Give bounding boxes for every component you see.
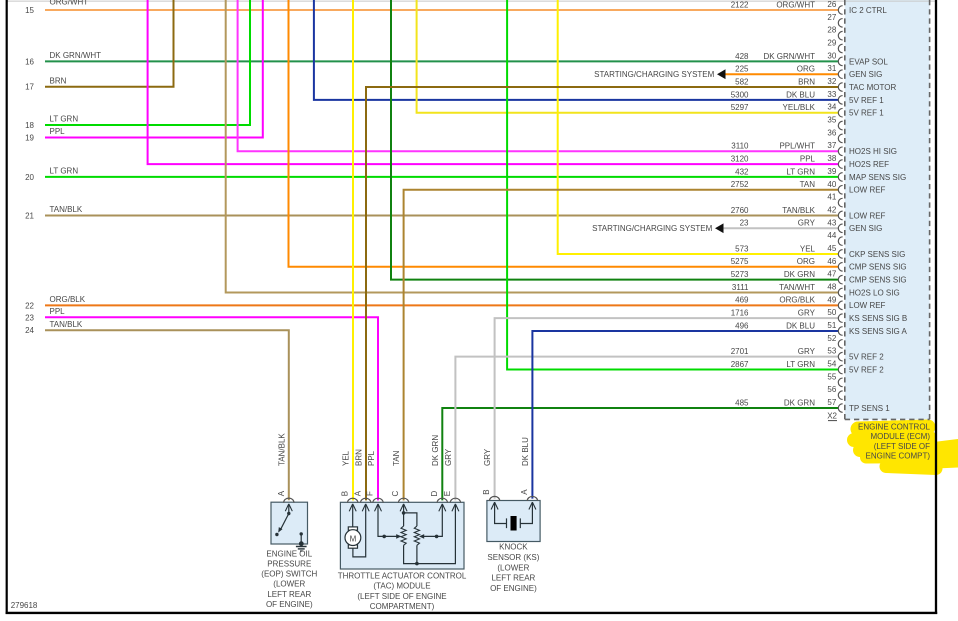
svg-text:LOW REF: LOW REF (849, 211, 886, 220)
svg-text:GEN SIG: GEN SIG (849, 70, 882, 79)
ECM pin number 56 (827, 385, 836, 394)
svg-text:(LOWER: (LOWER (273, 580, 305, 589)
KS pin A socket arc (527, 496, 537, 501)
ECM pin 57 socket arc (838, 404, 842, 413)
wire 1716 GRY: ECM pin 50 down to knock sensor pin B (495, 318, 839, 498)
wire color label ORG (pin 31) (797, 65, 815, 74)
circuit number 2701 (pin 53) (731, 347, 749, 356)
svg-text:A: A (277, 490, 286, 496)
ECM pin 34 socket arc (838, 108, 842, 117)
wire color label BRN (left pin 17) (50, 76, 67, 85)
motor M1 in TAC module (345, 504, 361, 548)
ECM pin 48 socket arc (838, 288, 842, 297)
ECM pin number 30 (827, 51, 836, 60)
ECM pin 28 socket arc (838, 31, 842, 40)
knock sensor caption (487, 543, 539, 593)
svg-text:35: 35 (827, 116, 836, 125)
ECM pin 30 socket arc (838, 57, 842, 66)
TAC pin E socket arc (450, 498, 460, 503)
svg-text:TAN: TAN (392, 450, 401, 466)
svg-text:27: 27 (827, 13, 836, 22)
ECM pin 39 socket arc (838, 173, 842, 182)
wire color label DK BLU (pin 33) (786, 90, 815, 99)
svg-text:3120: 3120 (731, 154, 749, 163)
svg-text:22: 22 (25, 301, 34, 310)
wire color label ORG/WHT (pin 26) (776, 0, 815, 9)
svg-text:(TAC) MODULE: (TAC) MODULE (373, 582, 430, 591)
wire label BRN at TAC pin A (355, 449, 364, 466)
wire label GRY at TAC pin E (444, 448, 453, 466)
svg-text:ORG/WHT: ORG/WHT (50, 0, 89, 7)
svg-text:COMPARTMENT): COMPARTMENT) (370, 602, 435, 611)
wire TAC pin D to wiper of resistor R2 (419, 504, 442, 539)
circuit number 485 (pin 57) (735, 398, 749, 407)
svg-text:TP SENS 1: TP SENS 1 (849, 404, 890, 413)
circuit number 496 (pin 51) (735, 321, 749, 330)
ECM pin number 28 (827, 26, 836, 35)
label STARTING/CHARGING SYSTEM (pin 43) (592, 224, 712, 233)
EOP switch caption (261, 549, 317, 609)
TAC pin B terminal arrow (349, 504, 356, 511)
svg-text:31: 31 (827, 64, 836, 73)
svg-text:46: 46 (827, 257, 836, 266)
ECM pin number 44 (827, 231, 836, 240)
EOP pin A socket arc (284, 498, 294, 503)
ECM signal name KS SENS SIG A (pin 51) (849, 327, 907, 336)
svg-text:39: 39 (827, 167, 836, 176)
svg-text:C: C (391, 490, 400, 496)
svg-text:56: 56 (827, 385, 836, 394)
ECM pin 36 socket arc (838, 134, 842, 143)
wire color label LT GRN (left pin 20) (50, 167, 79, 176)
ECM signal name CMP SENS SIG (pin 47) (849, 276, 907, 285)
piezo crystal block (511, 516, 517, 531)
TAC pin C socket arc (398, 498, 408, 503)
svg-text:1716: 1716 (731, 309, 749, 318)
TAC pin letter B (340, 491, 349, 496)
ECM pin number 39 (827, 167, 836, 176)
ECM signal name 5V REF 2 (pin 54) (849, 365, 884, 374)
svg-text:LT GRN: LT GRN (50, 167, 79, 176)
left connector pin number 23 (25, 313, 34, 322)
ECM pin 27 socket arc (838, 19, 842, 28)
wire color label GRY (pin 53) (798, 347, 816, 356)
svg-text:E: E (443, 491, 452, 496)
svg-text:(LOWER: (LOWER (497, 563, 529, 572)
svg-text:PPL/WHT: PPL/WHT (779, 142, 815, 151)
wire LT GRN: left pin 18 up to top (45, 0, 250, 125)
circuit number 5273 (pin 47) (731, 270, 749, 279)
wire color label TAN/BLK (pin 42) (782, 206, 815, 215)
EOP switch blade (278, 514, 289, 533)
wire 225 ORG: from starting/charging system to ECM pin 31 (726, 73, 839, 75)
wire color label PPL (left pin 23) (50, 307, 66, 316)
knock sensor box (487, 501, 540, 542)
ECM signal name 5V REF 2 (pin 53) (849, 353, 884, 362)
ECM pin number 53 (827, 347, 836, 356)
TAC module caption (338, 571, 467, 611)
ECM signal name KS SENS SIG B (pin 50) (849, 314, 907, 323)
wire color label DK BLU (pin 51) (786, 321, 815, 330)
left connector pin number 20 (25, 173, 34, 182)
ECM pin 32 socket arc (838, 83, 842, 92)
wire color label YEL/BLK (pin 34) (783, 103, 816, 112)
TAC pin F terminal arrow (375, 504, 382, 511)
ECM pin number 48 (827, 282, 836, 291)
TAC pin letter E (443, 491, 452, 496)
svg-text:THROTTLE ACTUATOR CONTROL: THROTTLE ACTUATOR CONTROL (338, 571, 467, 580)
circuit number 1716 (pin 50) (731, 309, 749, 318)
wire BRN: left pin 17 up to top (45, 0, 174, 87)
svg-text:225: 225 (735, 65, 749, 74)
wire 5297 YEL/BLK: from top to ECM pin 34 (417, 0, 839, 113)
ECM pin 29 socket arc (838, 44, 842, 53)
resistor R2 in TAC module (414, 526, 419, 545)
wire color label TAN/WHT (pin 48) (779, 283, 815, 292)
svg-text:5297: 5297 (731, 103, 749, 112)
svg-text:SENSOR (KS): SENSOR (KS) (487, 553, 539, 562)
circuit number 582 (pin 32) (735, 77, 749, 86)
svg-text:YEL: YEL (800, 244, 816, 253)
wire color label PPL (left pin 19) (50, 127, 66, 136)
connector designator X2 (827, 412, 837, 421)
svg-text:428: 428 (735, 52, 749, 61)
TAC pin letter C (391, 490, 400, 496)
svg-text:(EOP) SWITCH: (EOP) SWITCH (261, 570, 317, 579)
ECM pin number 57 (827, 398, 836, 407)
svg-text:26: 26 (827, 0, 836, 9)
svg-text:49: 49 (827, 295, 836, 304)
wire 485 DK GRN: ECM pin 57 down to TAC pin D (442, 408, 838, 500)
svg-text:F: F (366, 491, 375, 496)
wire color label PPL (pin 38) (800, 154, 816, 163)
svg-text:GEN SIG: GEN SIG (849, 224, 882, 233)
wire color label DK GRN/WHT (pin 30) (763, 52, 815, 61)
svg-text:44: 44 (827, 231, 836, 240)
wire 2752 TAN: ECM pin 40 down to TAC pin C (404, 190, 839, 501)
ECM pin number 45 (827, 244, 836, 253)
TAC pin D terminal arrow (439, 504, 446, 511)
circuit number 5300 (pin 33) (731, 90, 749, 99)
svg-text:CMP SENS SIG: CMP SENS SIG (849, 276, 907, 285)
ECM pin number 32 (827, 77, 836, 86)
junction node on bottom rail (415, 562, 419, 566)
svg-text:MAP SENS SIG: MAP SENS SIG (849, 173, 906, 182)
svg-text:DK GRN/WHT: DK GRN/WHT (763, 52, 815, 61)
svg-text:5V REF 1: 5V REF 1 (849, 96, 884, 105)
svg-text:BRN: BRN (50, 76, 67, 85)
svg-text:29: 29 (827, 39, 836, 48)
svg-text:DK BLU: DK BLU (786, 321, 815, 330)
wire label PPL at TAC pin F (367, 450, 376, 466)
svg-text:2752: 2752 (731, 180, 749, 189)
ECM signal name 5V REF 1 (pin 33) (849, 96, 884, 105)
left connector pin number 17 (25, 83, 34, 92)
ECM pin number 55 (827, 372, 836, 381)
ECM pin number 41 (827, 193, 836, 202)
svg-text:YEL: YEL (342, 450, 351, 466)
svg-text:485: 485 (735, 398, 749, 407)
label STARTING/CHARGING SYSTEM (pin 31) (594, 70, 714, 79)
TAC pin D socket arc (437, 498, 447, 503)
ECM signal name EVAP SOL (pin 30) (849, 57, 888, 66)
ECM pin 33 socket arc (838, 96, 842, 105)
svg-text:DK BLU: DK BLU (786, 90, 815, 99)
wire label TAN at TAC pin C (392, 450, 401, 466)
page frame left border (6, 0, 8, 614)
ECM caption: ENGINE CONTROL MODULE (ECM) (LEFT SIDE OF ENGINE COMPT) (858, 423, 931, 461)
svg-text:OF ENGINE): OF ENGINE) (266, 600, 313, 609)
page frame right border (935, 0, 937, 614)
ECM pin 31 socket arc (838, 70, 842, 79)
svg-text:32: 32 (827, 77, 836, 86)
svg-text:5V REF 2: 5V REF 2 (849, 353, 884, 362)
svg-text:STARTING/CHARGING SYSTEM: STARTING/CHARGING SYSTEM (594, 70, 714, 79)
ECM pin 49 socket arc (838, 301, 842, 310)
svg-text:PPL: PPL (800, 154, 816, 163)
KS pin A terminal arrow (529, 502, 536, 509)
ECM signal name LOW REF (pin 49) (849, 301, 886, 310)
wire label DK BLU at KS pin A (521, 437, 530, 466)
ECM pin 52 socket arc (838, 340, 842, 349)
ECM pin 46 socket arc (838, 263, 842, 272)
ECM signal name IC 2 CTRL (pin 26) (849, 6, 887, 15)
ECM pin number 43 (827, 218, 836, 227)
svg-text:TAN/BLK: TAN/BLK (50, 205, 83, 214)
ECM signal name HO2S REF (pin 38) (849, 160, 889, 169)
wire color label ORG/BLK (pin 49) (779, 296, 815, 305)
wire color label GRY (pin 43) (798, 219, 816, 228)
svg-text:ORG/BLK: ORG/BLK (779, 296, 815, 305)
svg-text:DK GRN: DK GRN (431, 435, 440, 466)
ECM pin 26 socket arc (838, 6, 842, 15)
wire 2867 LT GRN: from top to ECM pin 54 (507, 0, 838, 370)
svg-text:28: 28 (827, 26, 836, 35)
left connector pin number 18 (25, 121, 34, 130)
svg-text:ORG/BLK: ORG/BLK (50, 295, 86, 304)
svg-text:A: A (520, 489, 529, 495)
wire 428 DK GRN/WHT: left pin 16 to ECM pin 30 (45, 60, 838, 62)
svg-text:51: 51 (827, 321, 836, 330)
svg-text:ENGINE COMPT): ENGINE COMPT) (866, 451, 931, 460)
svg-text:LOW REF: LOW REF (849, 301, 886, 310)
wire color label DK GRN/WHT (left pin 16) (50, 51, 102, 60)
svg-text:573: 573 (735, 244, 749, 253)
ECM pin number 46 (827, 257, 836, 266)
wire color label TAN/BLK (left pin 21) (50, 205, 83, 214)
ECM pin 50 socket arc (838, 314, 842, 323)
svg-text:5V REF 1: 5V REF 1 (849, 109, 884, 118)
ECM pin number 31 (827, 64, 836, 73)
svg-text:MODULE (ECM): MODULE (ECM) (870, 432, 930, 441)
ECM pin number 47 (827, 270, 836, 279)
svg-text:ENGINE CONTROL: ENGINE CONTROL (858, 423, 931, 432)
circuit number 2122 (pin 26) (731, 0, 749, 9)
svg-text:ORG: ORG (797, 65, 815, 74)
wire color label TAN/BLK (left pin 24) (50, 320, 83, 329)
ECM pin 53 socket arc (838, 352, 842, 361)
wire 3110 PPL/WHT: from top to ECM pin 37 (238, 0, 839, 151)
svg-text:KS SENS SIG B: KS SENS SIG B (849, 314, 907, 323)
svg-text:23: 23 (25, 313, 34, 322)
svg-text:5273: 5273 (731, 270, 749, 279)
svg-text:47: 47 (827, 270, 836, 279)
wire 5300 DK BLU: from top to ECM pin 33 (314, 0, 839, 100)
svg-text:PPL: PPL (50, 307, 66, 316)
svg-text:CKP SENS SIG: CKP SENS SIG (849, 250, 905, 259)
circuit number 2867 (pin 54) (731, 360, 749, 369)
ECM pin number 36 (827, 128, 836, 137)
circuit number 2760 (pin 42) (731, 206, 749, 215)
engine oil pressure switch box (271, 502, 308, 544)
svg-text:GRY: GRY (798, 219, 816, 228)
svg-text:52: 52 (827, 334, 836, 343)
circuit number 5275 (pin 46) (731, 257, 749, 266)
svg-text:LT GRN: LT GRN (786, 360, 815, 369)
svg-text:432: 432 (735, 167, 749, 176)
ECM signal name CMP SENS SIG (pin 46) (849, 263, 907, 272)
ECM pin 54 socket arc (838, 365, 842, 374)
svg-text:34: 34 (827, 103, 836, 112)
svg-text:50: 50 (827, 308, 836, 317)
svg-text:HO2S REF: HO2S REF (849, 160, 889, 169)
bottom rail from resistors to TAC pin E (404, 504, 456, 563)
svg-text:A: A (353, 490, 362, 496)
wire label DK GRN at TAC pin D (431, 435, 440, 466)
wire 3120 PPL: from top to ECM pin 38 (148, 0, 839, 164)
ECM signal name 5V REF 1 (pin 34) (849, 109, 884, 118)
left connector pin number 22 (25, 301, 34, 310)
svg-text:IC 2 CTRL: IC 2 CTRL (849, 6, 887, 15)
wire 2701 GRY: ECM pin 53 down to TAC pin E (455, 357, 838, 501)
svg-text:2122: 2122 (731, 0, 749, 9)
svg-text:TAN/BLK: TAN/BLK (50, 320, 83, 329)
wire 2122 ORG/WHT: left pin 15 to ECM pin 26 (45, 9, 838, 11)
junction node on pin F wiper wire (382, 535, 386, 539)
wire color label BRN (pin 32) (798, 77, 815, 86)
ECM pin number 38 (827, 154, 836, 163)
faint top edge line (7, 0, 936, 2)
svg-text:PRESSURE: PRESSURE (267, 560, 311, 569)
svg-text:LT GRN: LT GRN (50, 115, 79, 124)
svg-text:DK GRN: DK GRN (784, 270, 815, 279)
ECM signal name HO2S HI SIG (pin 37) (849, 147, 897, 156)
svg-text:15: 15 (25, 6, 34, 15)
wire TAC pin C to resistors (404, 504, 417, 526)
svg-text:55: 55 (827, 372, 836, 381)
circuit number 3120 (pin 38) (731, 154, 749, 163)
EOP switch lower-left contact node (275, 533, 278, 536)
svg-text:OF ENGINE): OF ENGINE) (490, 584, 537, 593)
ECM pin number 51 (827, 321, 836, 330)
TAC pin F socket arc (373, 498, 383, 503)
ECM pin number 26 (827, 0, 836, 9)
wire 432 LT GRN: left pin 20 to ECM pin 39 (45, 176, 838, 178)
knock sensor piezo element (495, 502, 533, 528)
TAC pin A socket arc (361, 498, 371, 503)
ECM pin number 50 (827, 308, 836, 317)
svg-text:PPL: PPL (50, 127, 66, 136)
svg-text:582: 582 (735, 77, 749, 86)
svg-text:LEFT REAR: LEFT REAR (491, 574, 535, 583)
wire color label ORG/WHT (left pin 15) (50, 0, 89, 7)
off-page arrow to starting/charging system (pin 43) (715, 223, 724, 233)
svg-text:X2: X2 (827, 412, 837, 421)
circuit number 5297 (pin 34) (731, 103, 749, 112)
svg-text:279618: 279618 (11, 601, 38, 610)
ECM signal name LOW REF (pin 40) (849, 186, 886, 195)
svg-text:54: 54 (827, 360, 836, 369)
resistor R1 in TAC module (401, 526, 406, 545)
svg-text:DK GRN/WHT: DK GRN/WHT (50, 51, 102, 60)
svg-text:18: 18 (25, 121, 34, 130)
ECM pin number 54 (827, 360, 836, 369)
svg-text:STARTING/CHARGING SYSTEM: STARTING/CHARGING SYSTEM (592, 224, 712, 233)
svg-text:KNOCK: KNOCK (499, 543, 528, 552)
junction node on pin D wiper wire (435, 535, 439, 539)
ECM pin 38 socket arc (838, 160, 842, 169)
wire TAN/BLK: left pin 24 down to EOP switch pin A (45, 330, 289, 500)
circuit number 573 (pin 45) (735, 244, 749, 253)
svg-text:41: 41 (827, 193, 836, 202)
wire 23 GRY: from starting/charging system to ECM pin 43 (724, 227, 839, 229)
ECM pin 42 socket arc (838, 211, 842, 220)
wire label GRY at KS pin B (483, 448, 492, 466)
ECM pin number 49 (827, 295, 836, 304)
svg-text:3110: 3110 (731, 142, 749, 151)
ECM pin 55 socket arc (838, 378, 842, 387)
wire 3111 TAN/WHT: from top to ECM pin 48 (226, 0, 839, 292)
svg-text:(LEFT SIDE OF ENGINE: (LEFT SIDE OF ENGINE (357, 592, 446, 601)
svg-text:B: B (482, 489, 491, 494)
svg-text:57: 57 (827, 398, 836, 407)
ECM pin number 34 (827, 103, 836, 112)
wire PPL: left pin 19 up to top (45, 0, 263, 138)
circuit number 469 (pin 49) (735, 296, 749, 305)
svg-text:5275: 5275 (731, 257, 749, 266)
wire color label GRY (pin 50) (798, 309, 816, 318)
drawing number 279618 (11, 601, 38, 610)
KS pin B terminal arrow (491, 502, 498, 509)
ECM signal name TP SENS 1 (pin 57) (849, 404, 890, 413)
TAC pin E terminal arrow (452, 504, 459, 511)
TAC pin letter D (430, 490, 439, 496)
ECM pin number 40 (827, 180, 836, 189)
svg-text:19: 19 (25, 134, 34, 143)
svg-text:GRY: GRY (444, 448, 453, 466)
TAC pin C terminal arrow (400, 504, 407, 511)
ECM pin 51 socket arc (838, 327, 842, 336)
wire label YEL at TAC pin B (342, 450, 351, 466)
EOP pin A terminal arrow (285, 504, 292, 514)
ECM pin 47 socket arc (838, 275, 842, 284)
svg-text:BRN: BRN (798, 77, 815, 86)
ECM signal name TAC MOTOR (pin 32) (849, 83, 896, 92)
svg-text:5V REF 2: 5V REF 2 (849, 365, 884, 374)
svg-text:48: 48 (827, 282, 836, 291)
wire color label YEL (pin 45) (800, 244, 816, 253)
left connector pin number 21 (25, 211, 34, 220)
EOP switch ground contact node (300, 532, 303, 543)
wire 496 DK BLU: ECM pin 51 down to knock sensor pin A (532, 331, 838, 499)
off-page arrow to starting/charging system (pin 31) (717, 69, 726, 79)
motor M label (350, 534, 357, 543)
wire 469 ORG/BLK: left pin 22 to ECM pin 49 (45, 304, 838, 306)
ECM pin 44 socket arc (838, 237, 842, 246)
KS pin B socket arc (489, 496, 499, 501)
left connector pin number 16 (25, 57, 34, 66)
wire color label ORG (pin 46) (797, 257, 815, 266)
